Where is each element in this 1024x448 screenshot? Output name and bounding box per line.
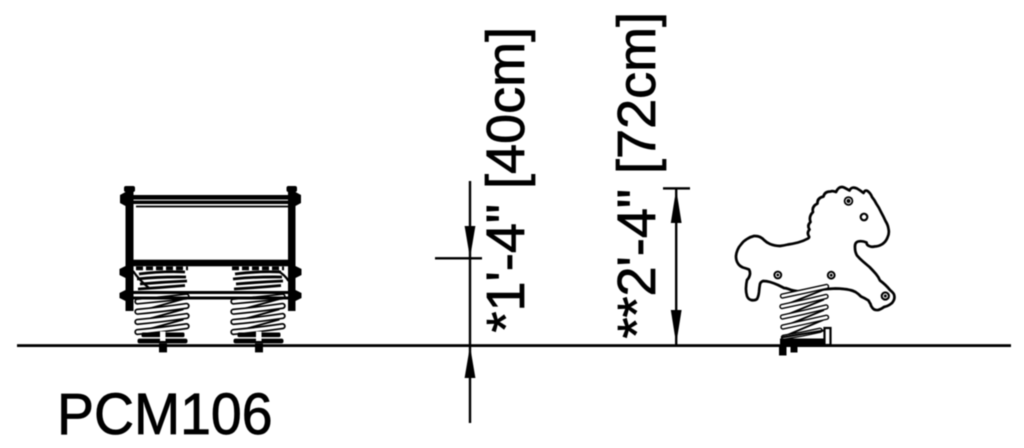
svg-text:PCM106: PCM106	[57, 381, 273, 447]
svg-text:**2'-4" [72cm]: **2'-4" [72cm]	[607, 12, 667, 339]
svg-text:*1'-4" [40cm]: *1'-4" [40cm]	[476, 27, 536, 333]
